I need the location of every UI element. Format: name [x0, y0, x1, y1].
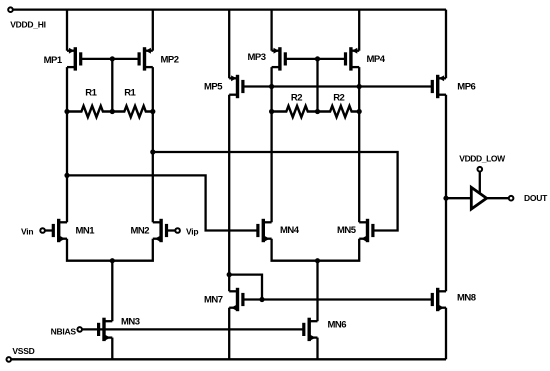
transistor MN5	[359, 219, 373, 242]
junction MN7 gate loop node	[259, 297, 264, 302]
wire MN7 MN8 gate line	[243, 298, 432, 300]
resistor R2 left	[272, 106, 318, 117]
terminal DOUT	[509, 196, 514, 201]
transistor MP4	[346, 47, 360, 70]
wire MN3 source to VSSD	[111, 338, 113, 360]
junction MP3 MP4 gate node	[315, 56, 320, 61]
svg-text:MP1: MP1	[44, 55, 63, 66]
junction tail2 node	[315, 258, 320, 263]
terminal VDDD_HI	[8, 7, 13, 12]
buffer U1	[471, 187, 486, 209]
svg-text:MN4: MN4	[280, 225, 300, 236]
wire MN4 source to tail2	[272, 239, 318, 261]
svg-text:DOUT: DOUT	[524, 193, 548, 203]
transistor MN1	[53, 219, 67, 242]
junction node B tap	[150, 149, 155, 154]
svg-text:R2: R2	[333, 92, 344, 103]
wire MP4 source to R2 right / node to MN5 drain	[358, 67, 360, 222]
wire gate node1 to R1 center	[111, 59, 113, 112]
wire MP3 drain to rail	[270, 10, 272, 51]
svg-text:MP3: MP3	[248, 52, 266, 63]
transistor MN2	[153, 219, 167, 242]
wire MP1 drain to rail	[66, 10, 68, 51]
junction R2 left node	[269, 109, 274, 114]
junction R1 left node	[64, 109, 69, 114]
wire Vin gate lead	[45, 229, 53, 231]
terminal VDDD_LOW	[478, 167, 483, 172]
wire VDDD_LOW to buffer	[479, 172, 481, 194]
wire NBIAS to MN3 and MN6 gates	[82, 328, 304, 330]
wire VSSD rail	[11, 358, 446, 360]
svg-text:MP4: MP4	[367, 54, 386, 65]
junction MP4 line gate tap	[357, 84, 362, 89]
svg-text:MN1: MN1	[76, 226, 96, 237]
svg-text:MN3: MN3	[121, 317, 140, 328]
transistor MP1	[67, 47, 81, 70]
svg-text:R2: R2	[291, 92, 302, 103]
junction R1 center node	[110, 109, 115, 114]
junction MN7 drain loop tap	[227, 272, 232, 277]
wire MP5 drain to rail	[228, 10, 230, 79]
svg-text:Vip: Vip	[186, 226, 198, 236]
transistor MP5	[229, 75, 243, 98]
junction MP3 line gate tap	[269, 84, 274, 89]
svg-text:R1: R1	[85, 88, 97, 99]
wire MP5 source to MN7 drain	[228, 95, 230, 292]
wire MN7 source to VSSD	[228, 308, 230, 360]
wire MN5 source to tail2	[318, 239, 360, 261]
wire MP6 drain to rail	[445, 10, 447, 79]
resistor R1 right	[112, 106, 153, 117]
wire buffer input	[446, 197, 471, 199]
terminal NBIAS	[77, 327, 82, 332]
terminal VSSD	[7, 357, 12, 362]
wire MP3 MP4 gates	[285, 58, 345, 60]
svg-text:MN6: MN6	[328, 319, 347, 330]
resistor R2 right	[318, 106, 360, 117]
wire MP3 source to R2 left / node to MN4 drain	[270, 67, 272, 222]
wire tail1 to MN3 drain	[111, 261, 113, 322]
junction R2 center node	[315, 109, 320, 114]
svg-text:NBIAS: NBIAS	[51, 326, 77, 336]
transistor MP3	[272, 47, 286, 70]
transistor MP2	[139, 47, 153, 70]
svg-text:VSSD: VSSD	[12, 346, 34, 356]
junction R2 right node	[357, 109, 362, 114]
resistor R1 left	[67, 106, 112, 117]
svg-text:MN8: MN8	[457, 292, 476, 303]
wire MN8 source to VSSD	[445, 308, 447, 360]
junction buffer input tap	[443, 196, 448, 201]
wire MN6 source to VSSD	[316, 338, 318, 360]
wire Vip gate lead	[167, 229, 176, 231]
transistor MN4	[258, 219, 272, 242]
wire MP1 MP2 gates	[81, 58, 139, 60]
svg-text:MN7: MN7	[204, 294, 223, 305]
wire VDDD_HI rail	[13, 8, 446, 10]
svg-text:R1: R1	[124, 88, 136, 99]
transistor MN7	[229, 288, 243, 311]
wire MN7 drain loop to gate	[229, 275, 262, 300]
wire MP2 drain to rail	[152, 10, 154, 51]
wire MP2 source to R1 right / node to MN2 drain	[152, 67, 154, 222]
svg-text:VDDD_HI: VDDD_HI	[10, 19, 46, 29]
wire buffer output to DOUT	[487, 197, 509, 199]
junction R1 right node	[150, 109, 155, 114]
junction tail1 node	[110, 258, 115, 263]
svg-text:MP6: MP6	[457, 82, 475, 93]
wire node B to MN5 gate	[153, 152, 398, 231]
svg-text:MN5: MN5	[337, 225, 357, 236]
transistor MN6	[304, 318, 318, 341]
svg-text:MP2: MP2	[161, 54, 179, 65]
wire tail2 to MN6 drain	[316, 261, 318, 322]
wire MP6 source to MN8 drain	[445, 95, 447, 292]
wire MP4 drain to rail	[358, 10, 360, 51]
wire gate node2 to R2 center	[316, 59, 318, 112]
terminal Vip	[175, 228, 180, 233]
svg-text:VDDD_LOW: VDDD_LOW	[459, 154, 506, 164]
transistor MN3	[99, 318, 113, 341]
terminal Vin	[40, 228, 45, 233]
svg-text:MP5: MP5	[204, 81, 223, 92]
transistor MN8	[432, 288, 446, 311]
junction node A tap	[64, 173, 69, 178]
transistor MP6	[432, 75, 446, 98]
junction MP1 MP2 gate node	[110, 56, 115, 61]
svg-text:MN2: MN2	[131, 226, 150, 237]
wire MP5 MP6 gate line	[243, 85, 432, 87]
svg-text:Vin: Vin	[21, 226, 33, 236]
wire node A to MN4 gate	[67, 175, 258, 230]
wire MN2 source to tail	[112, 239, 153, 261]
wire MN1 source to tail	[67, 239, 112, 261]
wire MP1 source to R1 left / node to MN1 drain	[66, 67, 68, 222]
